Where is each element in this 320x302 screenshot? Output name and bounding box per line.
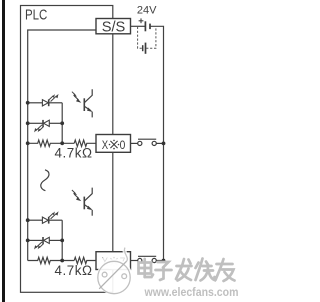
junction dot right bus at S1 (162, 142, 166, 146)
svg-text:X: X (102, 138, 108, 152)
svg-text:PLC: PLC (25, 7, 47, 24)
switch S1 (131, 139, 164, 145)
wire: LED D3 row (28, 219, 43, 221)
dashed battery plates (143, 43, 146, 54)
wire: LED D4 row (28, 239, 43, 241)
terminal box S/S (96, 19, 131, 34)
wire: S/S to left bus (28, 30, 96, 261)
watermark chinese text shadow (140, 260, 236, 283)
break squiggle (41, 170, 49, 191)
LED D4 (34, 237, 49, 250)
reference mark in X*0 (109, 140, 120, 150)
watermark stamp plug logo (124, 248, 127, 262)
LED D2 (34, 120, 49, 132)
svg-text:4.7kΩ: 4.7kΩ (55, 263, 93, 278)
svg-text:S/S: S/S (102, 19, 126, 35)
LED D3 (42, 211, 58, 223)
resistor R3 and resistor R4 (28, 257, 96, 263)
phototransistor Q1 (72, 89, 93, 117)
svg-text:4.7kΩ: 4.7kΩ (55, 146, 93, 161)
watermark stamp fade (97, 255, 133, 296)
wire: LED D1 row (28, 102, 43, 104)
junction dots section 2 (26, 218, 64, 262)
phototransistor Q2 (72, 188, 93, 216)
resistor R1 and resistor R2 (28, 140, 96, 146)
svg-text:www.elecfans.com: www.elecfans.com (144, 286, 239, 299)
svg-text:24V: 24V (137, 4, 157, 16)
wire: battery to right bus (150, 26, 164, 260)
wire: LED D2 row (28, 122, 43, 124)
PLC enclosure box (21, 6, 113, 293)
scan edge black bar (2, 0, 5, 302)
junction dot right bus at S2 (162, 259, 166, 263)
wire: vertical link section 2 (61, 220, 63, 260)
wire: vertical link section 1 (61, 103, 63, 144)
watermark chinese text: dian zi fa shao you (139, 259, 235, 282)
LED D1 (42, 94, 58, 106)
junction dots section 1 (26, 101, 64, 145)
dashed alternate battery path (138, 27, 156, 48)
wire: S/S to battery (131, 25, 146, 27)
battery 24V (139, 18, 150, 31)
reference mark in X*1 (109, 257, 120, 267)
terminal box X*0 (96, 135, 131, 153)
terminal box X*1 (96, 252, 131, 270)
switch S2 (131, 256, 164, 262)
svg-text:0: 0 (120, 138, 126, 152)
